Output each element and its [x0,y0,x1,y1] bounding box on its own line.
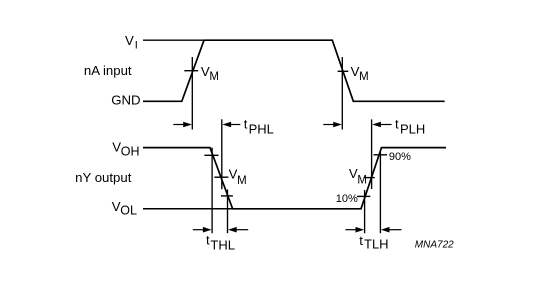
arrow tTHL right [228,227,248,233]
wire falling 90pct reference line [211,148,213,234]
svg-text:M: M [357,174,367,186]
svg-text:V: V [125,33,134,48]
node falling 90pct tick [204,154,218,156]
svg-text:OH: OH [121,145,140,159]
arrow tTLH right [381,227,402,233]
wire V_I level leader line [143,39,204,41]
svg-text:nA input: nA input [84,63,132,78]
node falling 10pct tick [221,195,233,197]
label VM input rising [201,64,219,83]
label tTHL [206,232,235,252]
node input rising VM reference line [191,57,193,130]
svg-text:OL: OL [120,204,137,218]
wire rising 10pct reference line [364,190,366,233]
svg-text:PLH: PLH [400,121,425,136]
label VM output falling [229,167,247,187]
node rising 90pct tick [374,154,388,156]
svg-text:I: I [135,40,138,52]
svg-text:nY output: nY output [75,170,132,185]
svg-text:t: t [206,232,210,247]
node input falling VM reference line [341,57,343,130]
node rising 10pct tick [357,195,370,197]
label VM input falling [351,64,369,83]
node output falling VM tick [214,176,228,178]
label tPLH [395,116,425,136]
svg-text:t: t [244,116,248,131]
label VM output rising [349,166,367,186]
arrow tPHL right [222,122,240,128]
svg-text:M: M [359,71,369,83]
node input rising VM tick [184,70,198,72]
wire input waveform [143,40,445,101]
label tTLH [359,233,388,252]
arrow tPLH right [372,122,391,128]
arrow tTHL left [193,227,212,233]
svg-text:THL: THL [210,237,235,252]
svg-text:PHL: PHL [249,121,274,136]
node output rising VM tick [364,177,375,179]
wire output waveform [143,148,446,209]
label V_OH [112,140,139,159]
svg-text:GND: GND [111,93,140,108]
label V_OL [112,199,137,218]
arrow tPLH left [323,122,342,128]
svg-text:t: t [359,233,363,248]
wire tPLH right reference line [371,119,373,189]
wire rising 90pct reference line [379,151,381,234]
svg-text:TLH: TLH [364,236,389,251]
svg-text:t: t [395,116,399,131]
wire falling 10pct reference line [227,190,229,234]
svg-text:MNA722: MNA722 [415,240,454,251]
label V_I [125,33,138,52]
arrow tTLH left [345,227,364,233]
svg-text:10%: 10% [336,193,358,205]
wire tPHL right reference line [221,119,223,189]
label tPHL [244,116,274,136]
node input falling VM tick [338,70,349,72]
svg-text:90%: 90% [389,151,411,163]
svg-text:M: M [237,175,247,187]
svg-text:M: M [209,71,219,83]
wire V_OL level leader line [143,208,233,210]
arrow tPHL left [173,122,192,128]
